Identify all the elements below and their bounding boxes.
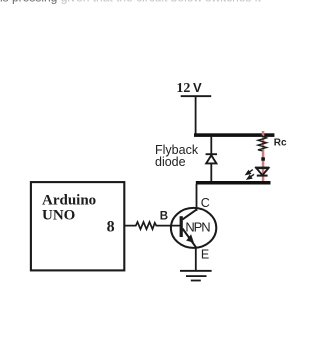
Arduino UNO box <box>31 182 124 270</box>
svg-text:Rc: Rc <box>274 138 287 149</box>
LED D2 <box>255 167 269 177</box>
top rail wire (thick) <box>194 133 274 137</box>
svg-text:E: E <box>201 247 209 261</box>
svg-text:B: B <box>160 211 168 223</box>
wire collector from rail down to transistor <box>196 184 198 211</box>
ground symbol <box>180 270 212 282</box>
transistor base bar <box>180 216 183 237</box>
svg-text:V: V <box>193 80 202 95</box>
transistor collector stroke <box>183 210 197 220</box>
svg-text:is pressing given that the cir: is pressing given that the circuit below… <box>0 0 261 5</box>
transistor Q1 NPN: body circle <box>171 208 216 248</box>
red wire through Rc and LED branch <box>262 131 265 182</box>
junction dot on LED branch <box>261 157 265 160</box>
transistor emitter stroke with arrow <box>183 229 196 248</box>
svg-text:NPN: NPN <box>185 220 210 235</box>
LED emission arrows <box>246 170 254 179</box>
svg-text:12: 12 <box>176 81 190 96</box>
wire emitter to ground <box>195 247 197 271</box>
wire from 12V down to top rail <box>195 97 197 135</box>
svg-text:C: C <box>201 196 210 210</box>
resistor Rc zigzag <box>258 135 267 151</box>
svg-text:UNO: UNO <box>42 208 75 224</box>
wire flyback branch <box>210 136 212 182</box>
flyback diode D1 <box>206 154 217 163</box>
svg-text:Arduino: Arduino <box>42 193 96 209</box>
svg-text:diode: diode <box>155 155 186 169</box>
wire pin 8 to base with series resistor <box>125 222 181 229</box>
svg-text:8: 8 <box>107 218 115 235</box>
bottom rail wire (thick) <box>196 181 271 185</box>
supply terminal bar <box>181 95 212 97</box>
